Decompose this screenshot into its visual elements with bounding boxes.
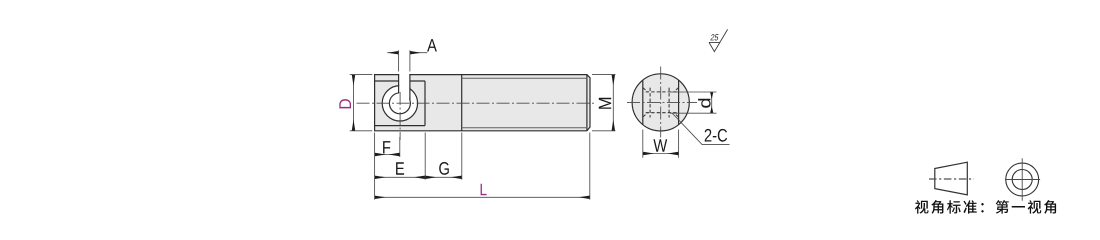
dim W extension lines: [643, 130, 679, 158]
dimensions: [350, 50, 730, 199]
block flat top line: [375, 80, 425, 82]
horizontal center line: [357, 102, 597, 104]
dim d extension lines: [670, 92, 717, 113]
projection symbol frustum: [935, 162, 968, 195]
caption: 视角标准：第一视角: [915, 200, 1056, 214]
front view body: [375, 73, 590, 130]
label 2-C: [705, 129, 727, 142]
slot edge left: [398, 75, 400, 93]
flat left: [642, 80, 644, 125]
label E: [396, 162, 404, 174]
hidden verticals: [650, 88, 669, 118]
dim A extension lines: [399, 50, 410, 71]
block edge line: [424, 81, 426, 126]
hidden corner diagonals: [643, 88, 678, 117]
dim d line: [711, 92, 713, 113]
side view: [632, 74, 689, 131]
circles crosshair: [1005, 158, 1040, 201]
frustum center line: [929, 178, 974, 180]
leader line 2-C: [672, 113, 730, 144]
slot white interior: [399, 73, 409, 102]
dim D line: [353, 75, 355, 131]
dim F line: [375, 154, 400, 156]
projection symbol circles: [1006, 163, 1039, 196]
surface roughness symbol: [709, 29, 728, 51]
dim M extension lines: [592, 75, 616, 131]
hole inner circle: [389, 93, 410, 114]
vertical center line of hole: [399, 92, 401, 140]
slot edge right: [409, 75, 411, 101]
hole outer circle: [382, 86, 417, 121]
label F: [383, 141, 390, 153]
center lines front view: [357, 92, 597, 140]
center lines side view: [627, 67, 697, 138]
label L magenta: [481, 184, 487, 195]
dim L line: [375, 196, 590, 198]
wire: right end chamfer line: [586, 75, 588, 131]
flat right: [678, 80, 680, 125]
dim A arrows: [387, 52, 398, 54]
thread root lines: [462, 78, 588, 128]
block flat bottom line: [375, 125, 425, 127]
dim G line: [425, 176, 462, 178]
hidden hole horizontals: [646, 92, 678, 113]
dim D extension lines: [350, 75, 373, 131]
dim W line: [643, 153, 679, 155]
dim E line: [375, 176, 426, 178]
label G: [439, 162, 449, 175]
label A: [427, 39, 437, 51]
label W: [653, 139, 667, 151]
label d rotated: [698, 99, 711, 108]
roughness value 25: [710, 34, 718, 40]
wire: thread start line: [461, 75, 463, 131]
label D magenta rotated: [339, 99, 351, 108]
label M rotated: [599, 98, 611, 109]
side circle: [632, 74, 689, 131]
extension lines below part: [375, 133, 590, 200]
dim M line: [612, 75, 614, 131]
hidden lines side view: [643, 88, 678, 118]
